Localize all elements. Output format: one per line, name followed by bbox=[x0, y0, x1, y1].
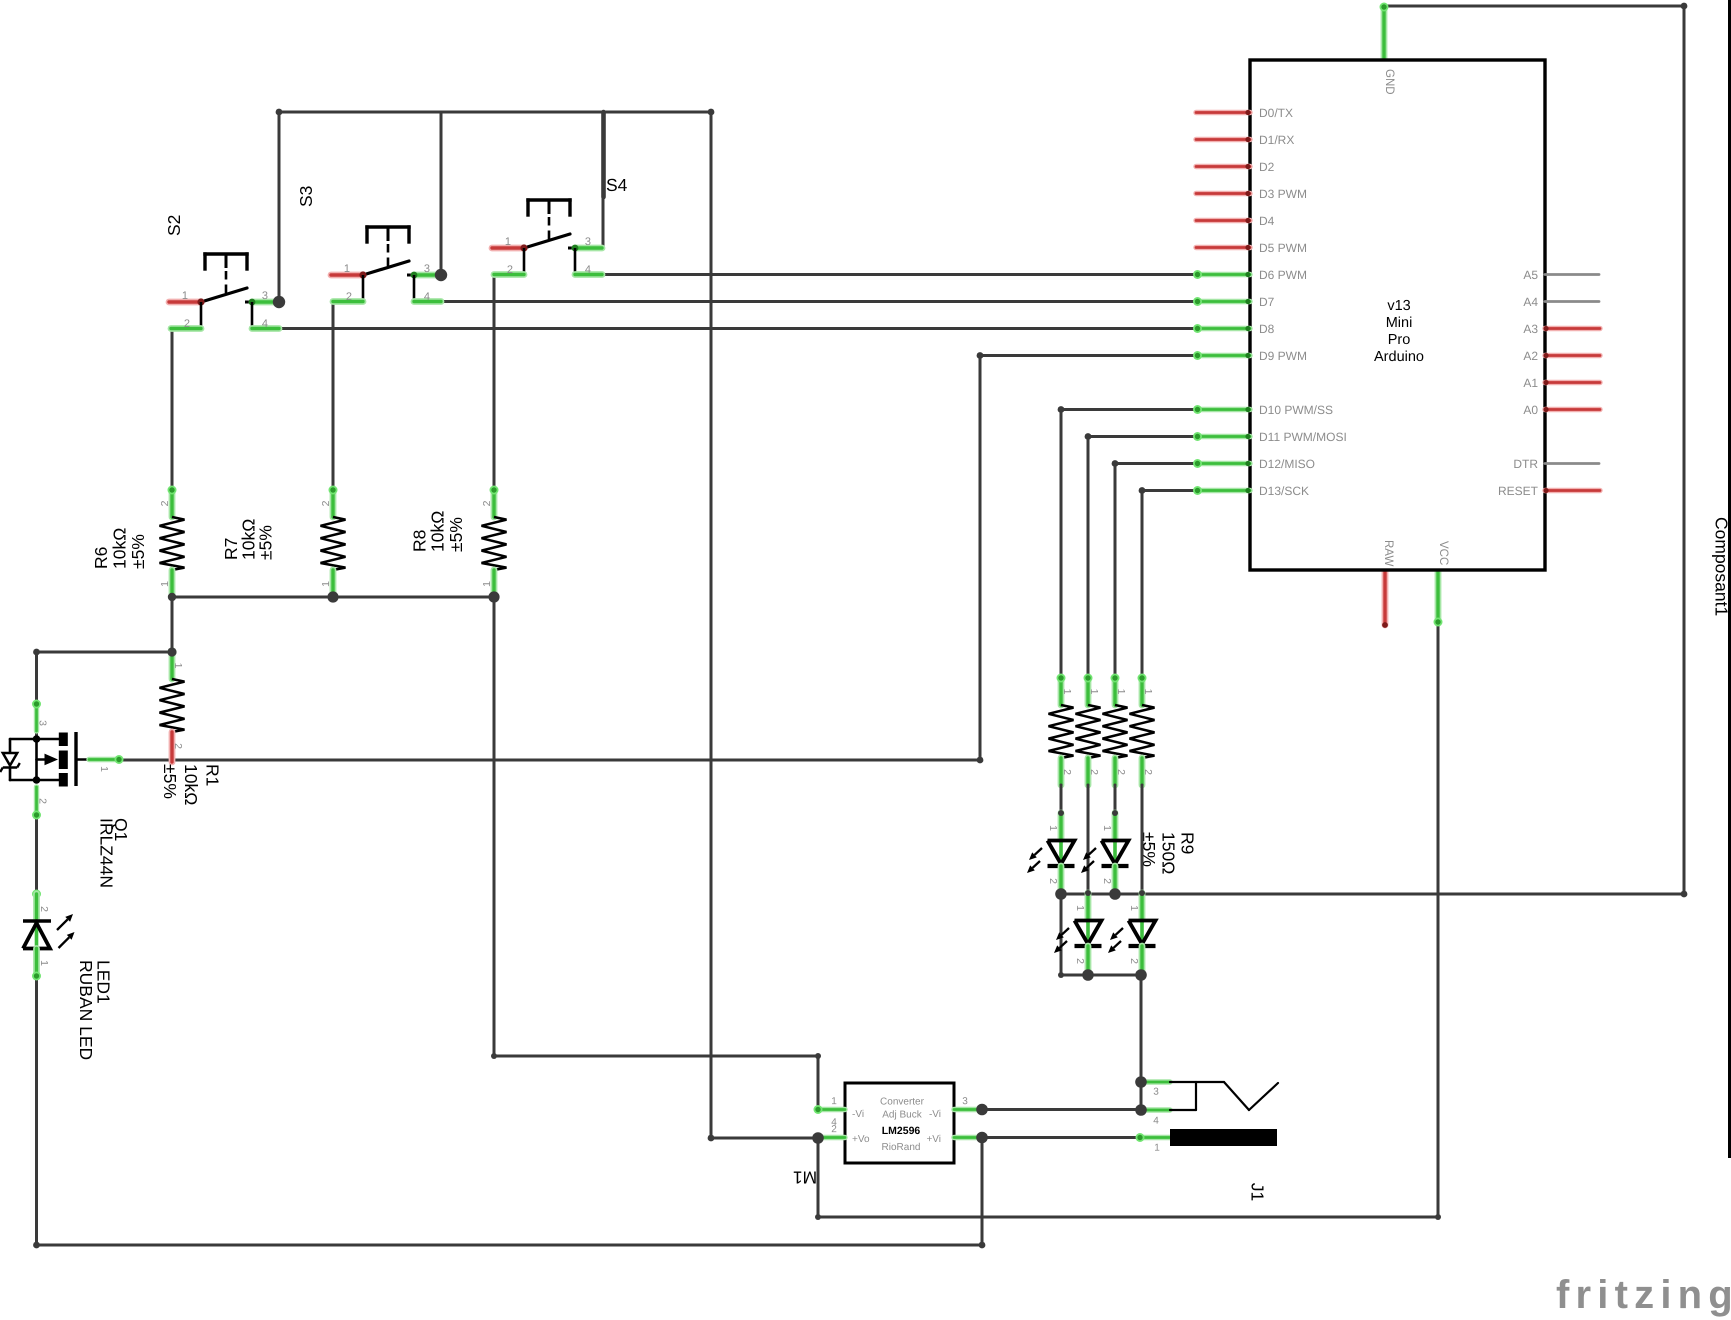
svg-text:D2: D2 bbox=[1259, 160, 1275, 174]
svg-text:S2: S2 bbox=[164, 215, 184, 236]
svg-text:1: 1 bbox=[172, 663, 184, 669]
svg-text:1: 1 bbox=[481, 581, 493, 587]
resistor R9 unit1 bbox=[1049, 674, 1074, 786]
wire GND from Arduino bbox=[1380, 3, 1688, 898]
node R9a-LED link bbox=[1058, 810, 1064, 816]
svg-text:1: 1 bbox=[320, 581, 332, 587]
svg-text:Mini: Mini bbox=[1386, 315, 1413, 331]
svg-text:2: 2 bbox=[1142, 769, 1154, 775]
junction S2 pin3 bbox=[273, 296, 285, 308]
wire node R1 top to Q1 drain bbox=[33, 649, 172, 704]
svg-text:D5 PWM: D5 PWM bbox=[1259, 241, 1307, 255]
resistor R8 10k bbox=[409, 486, 506, 598]
svg-text:D8: D8 bbox=[1259, 322, 1275, 336]
svg-text:2: 2 bbox=[831, 1124, 837, 1135]
LED D5 (row2 b) bbox=[1108, 893, 1156, 974]
resistor R6 10k bbox=[91, 486, 185, 598]
svg-text:1: 1 bbox=[505, 236, 511, 248]
svg-text:1: 1 bbox=[182, 290, 188, 302]
svg-text:R1: R1 bbox=[203, 764, 223, 786]
junction R7 bottom bbox=[327, 591, 338, 602]
svg-text:D3 PWM: D3 PWM bbox=[1259, 187, 1307, 201]
svg-text:150Ω: 150Ω bbox=[1158, 832, 1178, 874]
junction J1 pin4 bbox=[1135, 1104, 1147, 1116]
svg-text:2: 2 bbox=[1088, 769, 1100, 775]
LED D2 (row1 a) bbox=[1027, 813, 1075, 894]
svg-text:1: 1 bbox=[344, 263, 350, 275]
svg-text:R8: R8 bbox=[409, 530, 429, 552]
svg-text:GND: GND bbox=[1383, 69, 1395, 95]
svg-text:2: 2 bbox=[159, 500, 171, 506]
svg-text:2: 2 bbox=[38, 906, 50, 912]
svg-text:3: 3 bbox=[962, 1096, 968, 1107]
wire S4 pin4 to D6 bbox=[602, 273, 1197, 276]
svg-text:4: 4 bbox=[262, 318, 268, 330]
svg-text:1: 1 bbox=[1047, 825, 1059, 831]
junction LED bus at LED row1 a bbox=[1055, 888, 1067, 900]
wire J1 to M1 -Vi right bbox=[982, 1108, 1141, 1111]
resistor R1 10k bbox=[160, 648, 223, 806]
transistor Q1 IRLZ44N bbox=[0, 700, 131, 889]
svg-text:2: 2 bbox=[507, 264, 513, 276]
svg-text:10kΩ: 10kΩ bbox=[110, 528, 130, 569]
wire S2 pin4 to D8 bbox=[279, 327, 1197, 330]
svg-text:-Vi: -Vi bbox=[929, 1109, 941, 1120]
wire S3 pin4 to D7 bbox=[441, 300, 1197, 303]
svg-text:Composant1: Composant1 bbox=[1711, 517, 1731, 616]
svg-text:±5%: ±5% bbox=[446, 517, 466, 552]
resistor R7 10k bbox=[221, 486, 346, 598]
wire bus to S3 pin3 bbox=[440, 112, 443, 275]
wire M1 +Vi to J1 pin1 bbox=[982, 1136, 1140, 1139]
svg-text:2: 2 bbox=[1061, 769, 1073, 775]
wire S2 pin2 to R6 bbox=[171, 329, 174, 491]
node R9d-LED link bbox=[1139, 890, 1145, 896]
svg-text:D10 PWM/SS: D10 PWM/SS bbox=[1259, 403, 1333, 417]
wire bus to S2 pin3 bbox=[278, 112, 281, 302]
junction M1 +Vo bbox=[812, 1132, 824, 1144]
svg-text:D12/MISO: D12/MISO bbox=[1259, 457, 1315, 471]
svg-text:S4: S4 bbox=[606, 175, 628, 195]
junction R6 bottom bbox=[168, 593, 176, 601]
svg-text:1: 1 bbox=[1142, 689, 1154, 695]
wire LED row2 to J1 pin3 bbox=[1140, 975, 1143, 1082]
svg-text:-Vi: -Vi bbox=[852, 1109, 864, 1120]
wire D9 to Q1 gate bbox=[120, 352, 1197, 763]
wire D11 to R9b bbox=[1085, 433, 1197, 678]
module M1 LM2596 buck converter bbox=[793, 1083, 982, 1188]
wire Q1 source to LED1 bbox=[35, 815, 38, 894]
svg-text:D4: D4 bbox=[1259, 214, 1275, 228]
wire D13 to R9d bbox=[1139, 487, 1197, 678]
wire LED GND bus bbox=[1061, 893, 1684, 896]
svg-text:S3: S3 bbox=[296, 186, 316, 207]
svg-text:2: 2 bbox=[184, 318, 190, 330]
svg-text:A5: A5 bbox=[1523, 268, 1538, 282]
svg-text:A2: A2 bbox=[1523, 349, 1538, 363]
svg-text:2: 2 bbox=[172, 743, 184, 749]
svg-text:3: 3 bbox=[262, 290, 268, 302]
svg-text:1: 1 bbox=[159, 581, 171, 587]
junction LED bus at LED row1 b bbox=[1109, 888, 1121, 900]
svg-text:Pro: Pro bbox=[1388, 332, 1411, 348]
svg-text:DTR: DTR bbox=[1513, 457, 1538, 471]
wire ground bus to M1 -Vi bbox=[491, 597, 821, 1109]
wire bus to S4 pin3 bbox=[602, 112, 606, 248]
svg-text:1: 1 bbox=[1128, 905, 1140, 911]
wire M1 +Vo to top bus riser bbox=[711, 1137, 818, 1140]
wire top bus bbox=[276, 109, 715, 116]
wire M1 +Vo to VCC bbox=[815, 622, 1441, 1220]
svg-text:D7: D7 bbox=[1259, 295, 1275, 309]
pushbutton S2 bbox=[164, 215, 279, 330]
svg-text:RAW: RAW bbox=[1382, 540, 1394, 567]
wire R9c to LED1b bbox=[1114, 785, 1117, 813]
svg-text:+Vi: +Vi bbox=[926, 1134, 941, 1145]
svg-text:±5%: ±5% bbox=[256, 525, 276, 560]
wire R9b to LED2a bbox=[1087, 785, 1090, 893]
svg-text:M1: M1 bbox=[793, 1168, 817, 1188]
pushbutton S4 bbox=[492, 175, 628, 276]
svg-text:2: 2 bbox=[1128, 958, 1140, 964]
svg-text:1: 1 bbox=[831, 1096, 837, 1107]
svg-text:1: 1 bbox=[1101, 825, 1113, 831]
svg-text:4: 4 bbox=[424, 291, 430, 303]
resistor R9 unit2 bbox=[1076, 674, 1101, 786]
svg-text:A1: A1 bbox=[1523, 376, 1538, 390]
node R9c-LED link bbox=[1112, 810, 1118, 816]
LED D3 (row1 b) bbox=[1081, 813, 1129, 894]
svg-text:LM2596: LM2596 bbox=[882, 1125, 921, 1137]
junction LED row2 bus a bbox=[1082, 969, 1094, 981]
svg-text:10kΩ: 10kΩ bbox=[181, 764, 201, 805]
junction LED row2 bus b bbox=[1135, 969, 1147, 981]
junction S3 pin3 bbox=[435, 269, 447, 281]
svg-text:1: 1 bbox=[98, 766, 110, 772]
junction R1 top / Q1 drain net bbox=[167, 647, 176, 656]
svg-text:2: 2 bbox=[1101, 878, 1113, 884]
junction M1 +Vi bbox=[976, 1132, 988, 1144]
svg-text:D13/SCK: D13/SCK bbox=[1259, 484, 1309, 498]
svg-text:1: 1 bbox=[1061, 689, 1073, 695]
svg-text:Adj Buck: Adj Buck bbox=[882, 1109, 922, 1120]
svg-text:IRLZ44N: IRLZ44N bbox=[97, 818, 117, 888]
frame right edge bbox=[1728, 0, 1731, 1158]
svg-text:Arduino: Arduino bbox=[1374, 349, 1424, 365]
svg-text:1: 1 bbox=[1115, 689, 1127, 695]
svg-text:D1/RX: D1/RX bbox=[1259, 133, 1294, 147]
wire LED row link bbox=[1058, 894, 1141, 978]
junction J1 pin3 bbox=[1135, 1076, 1147, 1088]
wire RAW pin (unconnected) bbox=[1382, 570, 1388, 628]
wire VCC pin bbox=[1434, 570, 1443, 627]
LED D4 (row2 a) bbox=[1054, 893, 1102, 974]
wire S4 pin2 to R8 bbox=[493, 275, 496, 491]
wire R9a to LED1a bbox=[1060, 785, 1063, 813]
svg-text:±5%: ±5% bbox=[160, 764, 180, 799]
label Composant1 bbox=[1711, 517, 1731, 616]
wire D12 to R9c bbox=[1112, 460, 1197, 678]
svg-text:3: 3 bbox=[1153, 1087, 1159, 1098]
svg-text:2: 2 bbox=[346, 291, 352, 303]
svg-text:1: 1 bbox=[1154, 1143, 1160, 1154]
wire resistor ground bus bbox=[172, 596, 494, 599]
svg-text:R6: R6 bbox=[91, 547, 111, 569]
wire bus to M1 +Vo (vertical) bbox=[708, 112, 715, 1141]
wire R9d to LED2b bbox=[1141, 785, 1144, 893]
svg-text:3: 3 bbox=[37, 720, 49, 726]
svg-text:A4: A4 bbox=[1523, 295, 1538, 309]
svg-text:+Vo: +Vo bbox=[852, 1134, 870, 1145]
LED LED1 RUBAN LED bbox=[23, 890, 114, 1061]
resistor R9 unit3 bbox=[1103, 674, 1128, 786]
wire M1 +Vi to LED1 bottom bbox=[33, 976, 985, 1248]
svg-text:10kΩ: 10kΩ bbox=[428, 511, 448, 552]
junction M1 -Vi right bbox=[976, 1104, 988, 1116]
svg-text:RioRand: RioRand bbox=[882, 1142, 921, 1153]
svg-text:VCC: VCC bbox=[1437, 541, 1449, 565]
svg-text:2: 2 bbox=[1074, 958, 1086, 964]
svg-text:±5%: ±5% bbox=[128, 534, 148, 569]
svg-text:A3: A3 bbox=[1523, 322, 1538, 336]
watermark fritzing bbox=[1556, 1273, 1731, 1317]
svg-text:3: 3 bbox=[424, 263, 430, 275]
svg-text:2: 2 bbox=[37, 798, 49, 804]
svg-text:RESET: RESET bbox=[1498, 484, 1539, 498]
svg-text:D11 PWM/MOSI: D11 PWM/MOSI bbox=[1259, 430, 1347, 444]
svg-text:2: 2 bbox=[1115, 769, 1127, 775]
wire D10 to R9a bbox=[1058, 406, 1197, 678]
wire S3 pin2 to R7 bbox=[332, 302, 335, 491]
IC U1 Arduino Pro Mini bbox=[1193, 60, 1600, 570]
svg-text:2: 2 bbox=[320, 500, 332, 506]
svg-text:Converter: Converter bbox=[880, 1096, 925, 1107]
junction R8 bottom bbox=[488, 591, 499, 602]
wire J1 pins 3-4 link bbox=[1140, 1082, 1143, 1110]
svg-text:R9: R9 bbox=[1178, 832, 1198, 854]
node R9b-LED link bbox=[1085, 890, 1091, 896]
svg-text:D6 PWM: D6 PWM bbox=[1259, 268, 1307, 282]
svg-text:D9 PWM: D9 PWM bbox=[1259, 349, 1307, 363]
svg-text:2: 2 bbox=[1047, 878, 1059, 884]
svg-text:D0/TX: D0/TX bbox=[1259, 106, 1293, 120]
svg-text:1: 1 bbox=[1088, 689, 1100, 695]
svg-text:3: 3 bbox=[585, 236, 591, 248]
svg-text:1: 1 bbox=[38, 960, 50, 966]
resistor R9 unit4 bbox=[1130, 674, 1198, 875]
wire R6 bottom to R1 top bbox=[171, 597, 174, 652]
svg-text:v13: v13 bbox=[1387, 298, 1410, 314]
svg-text:fritzing: fritzing bbox=[1556, 1273, 1731, 1317]
svg-text:4: 4 bbox=[585, 264, 591, 276]
svg-text:A0: A0 bbox=[1523, 403, 1538, 417]
svg-text:1: 1 bbox=[1074, 905, 1086, 911]
svg-text:4: 4 bbox=[1153, 1116, 1159, 1127]
connector J1 power jack bbox=[1136, 1082, 1279, 1201]
svg-text:RUBAN LED: RUBAN LED bbox=[76, 960, 96, 1060]
svg-text:J1: J1 bbox=[1248, 1183, 1268, 1201]
pushbutton S3 bbox=[296, 186, 441, 303]
svg-text:2: 2 bbox=[481, 500, 493, 506]
